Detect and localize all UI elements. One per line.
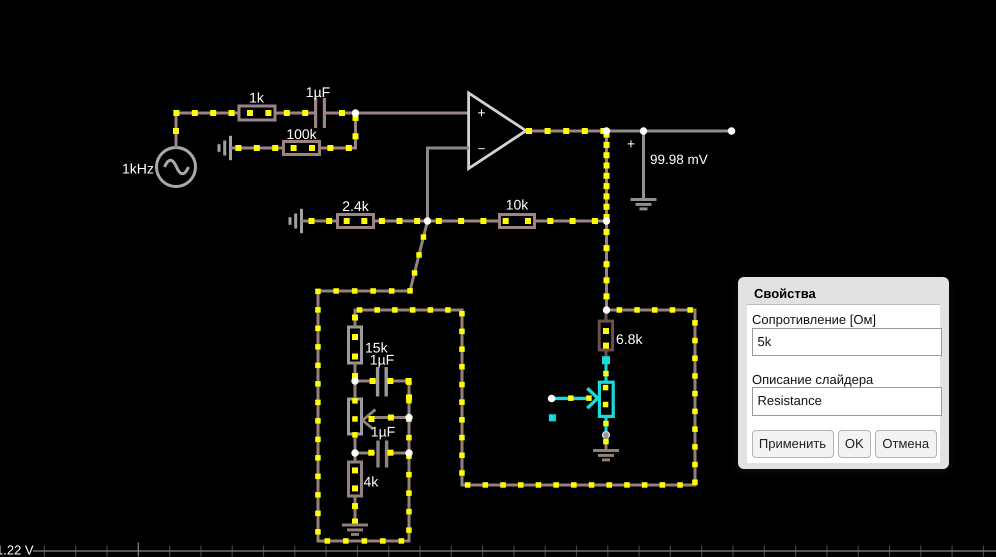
wire top horizontal to R1 (175, 112, 240, 115)
label C3 1uF (371, 423, 395, 439)
wire loop bottom (317, 540, 411, 543)
scope grid ticks (44, 543, 983, 557)
post open end (728, 127, 736, 135)
resistor R7 15k (349, 309, 362, 382)
node C junction (640, 127, 647, 134)
current dots C2 row (370, 378, 412, 400)
svg-text:100k: 100k (286, 126, 317, 142)
potentiometer R8 wiper arrow (363, 410, 411, 429)
button OK (838, 430, 872, 459)
current dots resistor row left (309, 218, 421, 224)
capacitor C3 1uF (355, 441, 410, 468)
svg-text:1.22 V: 1.22 V (0, 543, 34, 557)
wire G2 to R3 (318, 220, 338, 223)
wire G1 to R2 (246, 147, 283, 150)
svg-text:1µF: 1µF (371, 423, 395, 439)
capacitor C1 1uF (314, 98, 326, 128)
label 99.98 mV (650, 152, 708, 167)
wire source top lead (175, 112, 178, 149)
svg-text:1k: 1k (249, 89, 265, 105)
svg-text:1µF: 1µF (306, 84, 330, 100)
scope top border (33, 550, 996, 552)
current dots inner loop (357, 307, 698, 488)
wire feedback vertical (426, 147, 429, 223)
svg-text:10k: 10k (506, 196, 530, 212)
post R6 wiper (548, 395, 556, 403)
current dots outer loop (315, 234, 426, 543)
dialog content panel (747, 304, 940, 463)
resistor R3 2.4k (338, 215, 374, 228)
wire diagonal node D to loop (410, 221, 428, 291)
wire inner bottom (462, 484, 697, 487)
label C1 1uF (306, 84, 330, 100)
capacitor C2 1uF (355, 367, 410, 397)
resistor R5 6.8k (599, 310, 612, 358)
wire loop top (317, 290, 412, 293)
current dots 15k chain (352, 315, 358, 525)
potentiometer R8 body (349, 381, 362, 453)
wire R3 to node D (373, 220, 428, 223)
wire R6 to ground G5 (603, 437, 609, 450)
svg-text:6.8k: 6.8k (616, 331, 643, 347)
wire R4 to node E (534, 220, 607, 223)
button apply (752, 430, 834, 459)
label C2 1uF (370, 351, 394, 367)
node B junction (603, 127, 610, 134)
svg-text:1µF: 1µF (370, 351, 394, 367)
label R9 4k (363, 474, 379, 490)
label R2 100k (286, 126, 317, 142)
wire node B to node C (606, 130, 643, 133)
resistor R9 4k (349, 453, 362, 524)
svg-text:1kHz: 1kHz (122, 161, 154, 177)
resistor R2 100k (284, 142, 320, 155)
current dots node B down (604, 132, 610, 220)
wire to op-amp - input (426, 147, 469, 150)
current dots wiper row (369, 415, 394, 423)
voltmeter M1 lead (642, 131, 645, 199)
wire loop left (317, 290, 320, 543)
wire inner top right (606, 309, 697, 312)
label slider description (752, 372, 873, 387)
svg-text:99.98 mV: 99.98 mV (650, 152, 708, 167)
current dots C3 row (368, 450, 393, 456)
button cancel (875, 430, 938, 459)
wire node D to R4 (427, 220, 500, 223)
wire node C to open post (643, 130, 731, 133)
input resistance value 5k (752, 328, 942, 356)
label R3 2.4k (342, 198, 369, 214)
wire op-amp output to node B (526, 130, 607, 133)
svg-text:−: − (478, 141, 486, 156)
node G junction (351, 377, 358, 384)
resistor R1 1k (239, 106, 275, 120)
ground G2 (290, 209, 320, 233)
wire node B down to node D (605, 131, 608, 221)
node J junction (405, 449, 412, 456)
op-amp U1 (469, 93, 526, 169)
ground G5 (593, 451, 619, 460)
node I junction (351, 449, 358, 456)
label R5 6.8k (616, 331, 643, 347)
wire inner far right up (694, 309, 697, 487)
wire inner top (354, 309, 464, 312)
label R1 1k (249, 89, 265, 105)
current dots node E down (604, 229, 610, 299)
wire inner right down (461, 309, 464, 487)
svg-text:2.4k: 2.4k (342, 198, 369, 214)
label R4 10k (506, 196, 530, 212)
svg-text:4k: 4k (363, 474, 379, 490)
node H junction wiper (405, 414, 412, 421)
post marker R6 top (602, 356, 610, 364)
ground G3 voltmeter (631, 200, 657, 209)
AC voltage source V1 (1 kHz rail) (157, 148, 196, 187)
potentiometer R6 wiper arrow (554, 388, 598, 408)
node E junction (603, 217, 610, 224)
current dots output (526, 128, 606, 134)
svg-text:+: + (627, 135, 635, 151)
potentiometer R6 body (599, 364, 613, 433)
wire loop right (408, 380, 411, 543)
label R7 15k (365, 340, 389, 356)
wire C1 to node A (326, 112, 356, 115)
ground G1 (219, 136, 248, 160)
node F junction (603, 306, 610, 313)
selection handle square (549, 414, 556, 421)
wire R2 to node A (320, 147, 357, 150)
properties dialog (738, 277, 949, 469)
svg-text:+: + (477, 104, 485, 120)
wire node E to node F (605, 221, 608, 310)
wire node A to op-amp + input (355, 112, 469, 115)
ground G4 (342, 525, 368, 534)
label resistance (752, 312, 876, 327)
scope scale label 1.22 V (0, 543, 34, 557)
label 1kHz (122, 161, 154, 177)
node D junction (424, 217, 431, 224)
wire node A down (354, 112, 357, 150)
voltmeter plus label (627, 135, 635, 151)
node A junction (352, 109, 359, 116)
current dots input path (173, 110, 359, 151)
dialog title (754, 286, 816, 301)
post R6 bottom (603, 432, 610, 439)
resistor R4 10k (500, 215, 535, 228)
wire R1 to C1 (275, 112, 314, 115)
current dots resistor row right (436, 218, 598, 224)
input slider description Resistance (752, 387, 942, 416)
